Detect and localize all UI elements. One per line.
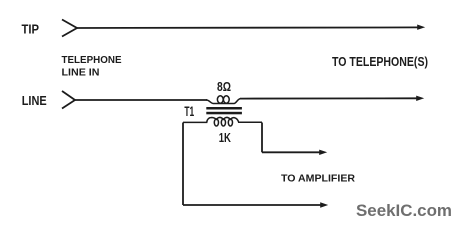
svg-text:TO TELEPHONE(S): TO TELEPHONE(S): [332, 54, 428, 69]
svg-text:LINE: LINE: [22, 94, 47, 108]
secondary winding loop 2: [221, 119, 225, 126]
node TIP terminal chevron: [62, 20, 77, 37]
secondary winding loop 1: [214, 119, 218, 126]
transformer T1 core bars: [206, 107, 242, 110]
wire secondary upper horizontal: [262, 151, 320, 153]
svg-text:SeekIC.com: SeekIC.com: [356, 201, 452, 220]
wire secondary left vertical: [182, 123, 184, 206]
svg-text:TELEPHONE: TELEPHONE: [62, 54, 122, 66]
arrowhead to telephone (line wire): [416, 96, 424, 101]
wire secondary right vertical: [261, 123, 263, 153]
svg-text:TO AMPLIFIER: TO AMPLIFIER: [281, 173, 355, 185]
svg-text:1K: 1K: [219, 131, 231, 145]
svg-text:TIP: TIP: [22, 23, 40, 37]
svg-text:LINE IN: LINE IN: [62, 67, 100, 79]
arrowhead to telephone (tip wire): [417, 25, 425, 30]
arrowhead to amplifier (upper): [319, 150, 327, 155]
node LINE terminal chevron: [62, 91, 75, 109]
transformer T1 primary winding 8ohm trough: [206, 99, 241, 104]
transformer T1 secondary winding 1K humps: [183, 117, 262, 122]
wire TIP line: [77, 26, 418, 29]
arrowhead to amplifier (bottom): [320, 202, 328, 207]
primary winding loop 2: [223, 96, 229, 103]
primary winding loop 1: [217, 96, 223, 103]
svg-text:T1: T1: [184, 104, 194, 119]
secondary winding loop 3: [228, 119, 232, 126]
svg-text:8Ω: 8Ω: [217, 80, 231, 94]
wire secondary bottom horizontal: [183, 204, 321, 206]
wire LINE line left segment: [75, 99, 207, 101]
wire LINE line right segment: [240, 97, 417, 99]
